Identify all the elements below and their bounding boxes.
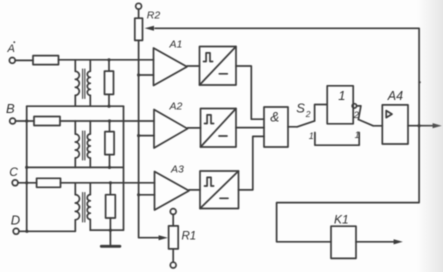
op-amp A1 <box>154 48 188 86</box>
svg-text:A4: A4 <box>387 89 403 103</box>
transformer T3 primary <box>74 183 76 232</box>
AND gate DD1 <box>264 107 288 147</box>
A4 triangle mark <box>386 111 392 118</box>
op-amp A2 <box>154 110 188 149</box>
converter U3 <box>200 171 239 209</box>
wire bubble to contact pivot <box>357 106 361 120</box>
resistor R-A <box>33 56 59 65</box>
transformer T1 core <box>83 69 85 99</box>
transformer T3 secondary <box>89 183 91 230</box>
transformer T3 core <box>83 193 85 223</box>
resistor Rv3 <box>106 183 116 230</box>
wire main reference bus <box>139 40 159 237</box>
node output junction <box>418 124 421 127</box>
wire contact to A4 <box>373 125 382 127</box>
svg-text:A3: A3 <box>170 163 184 175</box>
terminal B <box>10 118 16 124</box>
ground <box>101 230 120 246</box>
svg-text:C: C <box>9 165 18 179</box>
wire U3 out to AND input 3 <box>239 136 265 190</box>
terminal C <box>12 180 18 186</box>
potentiometer R1 <box>169 209 179 268</box>
svg-text:A1: A1 <box>169 38 183 50</box>
resistor R-B <box>34 117 60 126</box>
node Rv1 bottom <box>107 105 110 108</box>
wire bus to A1 input 2 <box>139 74 154 76</box>
wire T1 bottom rail <box>27 105 124 107</box>
wire AND out <box>288 126 297 128</box>
svg-text:S: S <box>296 100 305 115</box>
inverter DD2 <box>327 86 353 124</box>
wire rail2: R-B to A2 input 1 <box>60 120 154 122</box>
resistor Rv2 <box>105 121 114 167</box>
arrow into R2 wiper <box>145 26 154 31</box>
svg-text:R1: R1 <box>182 231 197 243</box>
converter U1 <box>200 47 237 86</box>
wire vertical link T1-T2-T3 rails <box>90 106 123 230</box>
svg-text:A2: A2 <box>169 101 183 113</box>
wire bus to A2 input 2 <box>139 135 154 137</box>
wire left common bus <box>26 106 28 231</box>
transformer T1 primary <box>74 60 76 106</box>
node bus-B <box>25 119 28 122</box>
terminal A <box>9 41 15 63</box>
K1 output arrow <box>394 239 403 244</box>
bypass position-1 bracket <box>315 133 359 146</box>
svg-text:D: D <box>11 213 20 228</box>
node bus-C <box>25 181 28 184</box>
wire T2 bottom rail <box>27 166 123 168</box>
wire U2 out to AND input 2 <box>236 127 264 129</box>
relay K1 <box>331 226 356 258</box>
node bus-rail2b <box>25 166 28 169</box>
svg-text:B: B <box>6 101 15 116</box>
wire A to R-A <box>15 59 33 61</box>
converter U2 <box>201 109 237 148</box>
svg-text:1: 1 <box>355 130 360 140</box>
node Rv1 top <box>107 58 110 61</box>
resistor R-C <box>37 178 61 187</box>
wire B to R-B <box>16 120 35 122</box>
node bus-A1 <box>137 73 140 76</box>
node bus-A2 <box>137 134 140 137</box>
wire K1 output <box>356 241 394 243</box>
amplifier A4 <box>382 105 408 144</box>
wire contact to inverter input <box>315 105 328 121</box>
wire bus to A3 input 2 <box>139 194 155 196</box>
switch S contact left <box>297 121 314 127</box>
transformer T2 core <box>83 131 85 160</box>
node bus-D <box>25 230 28 233</box>
blob artifact on feedback wire <box>418 81 420 83</box>
transformer T1 secondary <box>89 60 91 106</box>
wire rail1: R-A to A1 input 1 <box>59 59 154 61</box>
svg-text:K1: K1 <box>334 212 349 226</box>
potentiometer R2 <box>135 3 143 40</box>
resistor Rv1 <box>105 60 114 106</box>
wire T3 bottom/ground rail <box>90 229 123 231</box>
inversion bubble <box>352 104 356 108</box>
wire rail3: R-C to A3 input 1 <box>61 182 155 184</box>
svg-text:R2: R2 <box>147 9 161 21</box>
wire feedback down to K1 <box>277 126 420 242</box>
node Rv2 bottom <box>108 166 111 169</box>
op-amp A3 <box>155 172 190 211</box>
svg-text:1: 1 <box>309 131 314 141</box>
wire A2 out <box>188 127 201 129</box>
svg-text:&: & <box>270 110 279 125</box>
node Rv2 top <box>108 119 111 122</box>
svg-text:1: 1 <box>338 88 345 103</box>
transformer T2 primary <box>74 121 76 167</box>
svg-text:2: 2 <box>305 109 311 119</box>
arrow into R1 wiper <box>159 235 168 240</box>
node Rv3 top <box>109 181 112 184</box>
svg-text:A: A <box>7 43 15 55</box>
wire A4 output <box>408 125 434 127</box>
node bus-A3 <box>137 193 140 196</box>
wire A3 out <box>189 189 200 191</box>
wire A1 out <box>187 65 200 67</box>
wire D to T3 primary bottom <box>19 230 75 232</box>
output arrow <box>433 123 442 128</box>
wire feedback up to R2 <box>155 28 419 125</box>
transformer T2 secondary <box>89 121 91 167</box>
wire U1 out to AND input 1 <box>236 66 264 119</box>
terminal D <box>13 228 19 234</box>
node Rv3 bottom <box>109 229 112 232</box>
switch S contact right <box>358 120 373 126</box>
wire C to R-C <box>18 182 37 184</box>
